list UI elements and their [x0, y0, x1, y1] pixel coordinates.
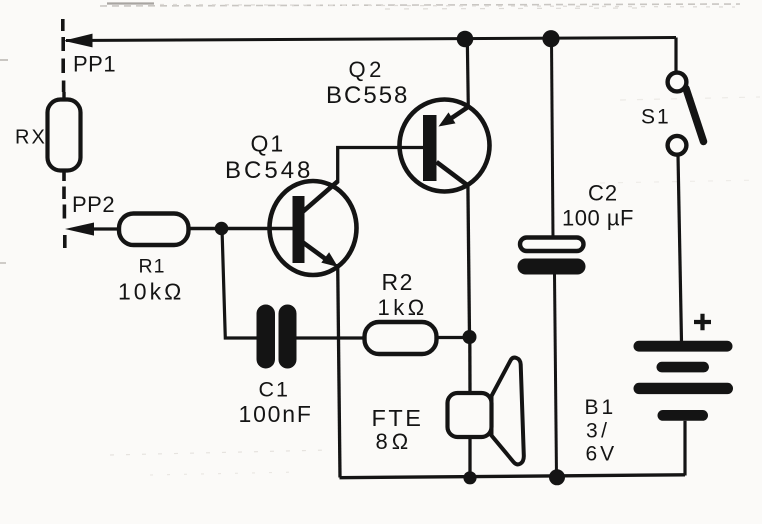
S1 top contact	[668, 73, 687, 92]
Q2 base bar	[423, 115, 437, 181]
svg-text:100nF: 100nF	[239, 401, 313, 427]
battery plate 1 (long)	[634, 341, 733, 352]
wire battery to ground rail	[683, 421, 686, 476]
svg-text:3/: 3/	[586, 420, 611, 443]
junction node top rail / C2	[542, 30, 559, 47]
wire base node down to C1	[222, 229, 258, 339]
capacitor C1 right plate	[279, 305, 297, 369]
battery plate 3 (long)	[634, 383, 734, 394]
resistor R1	[119, 214, 189, 246]
Q1 body circle	[270, 181, 357, 275]
junction node at Q1 base	[215, 222, 229, 236]
Q2 emitter arrowhead	[439, 112, 456, 126]
battery plate 2 (short)	[657, 362, 710, 373]
svg-text:R1: R1	[139, 256, 166, 278]
resistor RX	[48, 100, 81, 171]
Q1 emitter lead	[303, 243, 329, 262]
capacitor C2 bottom plate	[518, 259, 586, 275]
speaker FTE cone	[492, 358, 524, 465]
battery B1	[634, 314, 734, 476]
svg-text:FTE: FTE	[372, 405, 424, 431]
Q2 emitter lead (top)	[445, 106, 470, 123]
svg-text:BC548: BC548	[225, 157, 313, 184]
wire PP2 arrow to R1	[93, 227, 120, 230]
svg-text:PP2: PP2	[72, 192, 115, 217]
wire top rail down to Q2 emitter	[467, 39, 468, 107]
wire Q2 collector down to node	[468, 185, 470, 338]
dashed probe line above PP1	[61, 19, 65, 92]
S1 bottom contact	[668, 136, 687, 155]
svg-text:PP1: PP1	[73, 52, 116, 77]
svg-text:BC558: BC558	[326, 82, 409, 109]
transistor Q1 BC548	[270, 181, 357, 275]
switch S1	[668, 38, 704, 155]
battery plate 4 (short)	[658, 410, 709, 421]
Q2 body circle	[400, 100, 490, 192]
junction node R2 / speaker / Q2 collector	[463, 330, 477, 344]
wire below RX and dashed line to PP2	[62, 170, 66, 248]
svg-text:C2: C2	[588, 181, 618, 206]
capacitor C2 top plate	[520, 238, 584, 252]
battery plus sign	[694, 314, 711, 330]
junction node speaker / ground rail	[463, 471, 476, 484]
svg-text:100 µF: 100 µF	[562, 206, 634, 231]
wire node down to speaker	[468, 337, 472, 394]
probe tip arrow PP2	[65, 223, 94, 236]
svg-text:1kΩ: 1kΩ	[378, 295, 428, 320]
top supply rail wire	[66, 38, 676, 41]
svg-text:R2: R2	[382, 269, 414, 295]
svg-text:C1: C1	[259, 378, 290, 402]
svg-text:6V: 6V	[586, 443, 618, 466]
wire R1 to base node and Q1 base	[189, 227, 294, 230]
probe tip arrow PP1	[64, 34, 93, 48]
Q1 base bar	[293, 196, 305, 263]
transistor Q2 BC558	[400, 100, 490, 192]
speaker FTE body	[448, 393, 492, 437]
Q1 collector lead	[303, 182, 338, 212]
wire C1 to R2	[296, 336, 365, 339]
wire top rail down to C2	[552, 39, 554, 239]
capacitor C1 left plate	[257, 305, 276, 369]
wire Q1 collector up and to Q2 base	[338, 148, 424, 184]
svg-text:B1: B1	[585, 396, 617, 419]
svg-text:S1: S1	[641, 106, 671, 129]
Q1 emitter arrowhead	[321, 252, 338, 267]
junction node C2 / ground rail	[549, 469, 565, 485]
svg-text:Q2: Q2	[349, 57, 385, 82]
svg-text:10kΩ: 10kΩ	[118, 279, 184, 305]
svg-text:Q1: Q1	[251, 131, 286, 157]
junction node top rail / Q2 emitter	[457, 31, 474, 48]
ground bottom rail wire	[340, 475, 686, 478]
wire S1 to battery	[678, 155, 682, 342]
svg-text:RX: RX	[15, 127, 47, 149]
resistor R2	[365, 322, 437, 354]
Q2 collector lead (bottom)	[437, 162, 468, 186]
S1 lever	[686, 89, 704, 142]
svg-text:8Ω: 8Ω	[376, 429, 413, 454]
wire rail corner down to S1	[674, 38, 677, 74]
wire R2 to collector node	[437, 336, 471, 339]
wire speaker to ground rail	[468, 437, 471, 478]
wire C2 to ground rail	[555, 274, 557, 477]
wire Q1 emitter down to ground rail	[338, 264, 340, 478]
wire into RX top	[62, 92, 65, 101]
